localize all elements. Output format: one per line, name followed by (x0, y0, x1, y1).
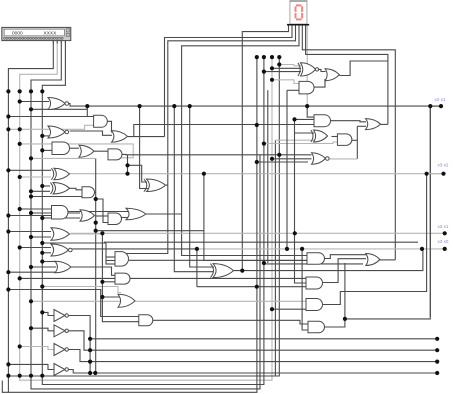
wire bottom run from column B (gray) (20, 57, 272, 380)
and gate U30 (314, 115, 331, 127)
wire U11 output to U14 input (68, 211, 128, 213)
wire U14 output to vertical x=181.6 (146, 213, 181, 215)
wire U17 output to U19 input (71, 267, 116, 275)
and gate U13 (108, 213, 122, 225)
junction dots rail y=106.1 (85, 104, 89, 108)
wire column B to U24 input (gray) (20, 347, 54, 350)
junction dot x=127.5 y=165.3 (125, 163, 129, 167)
wire gray run y=129.3 to U2 and U3 inputs (8, 125, 94, 129)
wire column A to U15 input (8, 231, 51, 233)
wire column D to U18 bundle (42, 242, 106, 244)
wire junction column x=90.1 (89, 339, 91, 373)
wire column A to U25 input (8, 364, 54, 369)
wire U38 output loop to x3x2 (323, 174, 427, 305)
wire keyboard pin3 to column x1 (31, 41, 61, 91)
wire U30 output to U34 input (331, 121, 367, 122)
wire column C to U9 input (31, 190, 50, 192)
wire U35 output to U36 input (325, 255, 367, 259)
wire keyboard pin4 to column x0 (42, 41, 65, 91)
wire V7 vertical x=294.5 U31 input to U37 input (295, 133, 315, 283)
wire x3x2 output stub (gray) (427, 173, 444, 175)
wire x95 branch run y=230.7 (96, 230, 204, 232)
wire V6 vertical x=287 (286, 90, 288, 249)
wire column C long run to U38 input (gray) (31, 300, 307, 302)
junction dot V2 y=263 (262, 261, 266, 265)
wire U28 output to 7seg pin g (339, 61, 388, 76)
wire column A to U17 input (8, 271, 56, 273)
junction dots inverter lines (88, 337, 92, 341)
wire bottom run from column C (31, 155, 260, 389)
wire column C to U23 input (31, 328, 54, 331)
wire 7seg pin a to vertical x=242.3 (242, 25, 288, 270)
wire column B to U1 input (20, 101, 49, 103)
wire U24 output line y=361.6 (65, 350, 437, 362)
7-segment display connector bar (287, 24, 309, 26)
wire U18 stub 2 (106, 256, 115, 258)
wire column C branch y=109.3 (31, 108, 87, 110)
wire V4 branch to U27 input (272, 67, 301, 69)
wire bottom dotted row run (7, 57, 279, 376)
svg-text:x2 x1: x2 x1 (435, 97, 446, 102)
and gate U5 (52, 142, 70, 155)
wire x102 vertical to U19 U20 U21 inputs (102, 233, 139, 321)
keyboard pin stubs (53, 41, 65, 44)
and gate U10 (82, 187, 95, 198)
and gate U2 (94, 115, 108, 127)
wire column D to U3 input (42, 135, 49, 137)
wire vertical x=189.7 to U26 input (190, 106, 214, 267)
wire vertical x=275.4 to U31 input (gray) (275, 139, 314, 141)
wire vertical x=174.3 to U26 input (174, 106, 214, 272)
svg-text:x3 x1: x3 x1 (438, 224, 449, 229)
and gate U35 (307, 253, 325, 265)
wire V8 vertical to U39 input (302, 249, 309, 330)
junction dot x102 y=281.8 (100, 280, 104, 284)
wire vertical x=196.9 to run y=286.7 (196, 249, 198, 287)
wire column D to U16 input (42, 252, 51, 254)
wire U18 stub 4 (106, 263, 115, 265)
inverter U22 (54, 310, 65, 322)
wire rail branch to U30 input (307, 106, 314, 117)
wire x102 branch to U19 input (102, 281, 116, 283)
and gate U21 (139, 315, 153, 326)
wire U4 output branch to U30 input (134, 125, 314, 137)
wire U22 output line y=338.8 (66, 316, 437, 339)
wire V4 branch to U33 input (272, 158, 312, 160)
svg-text:0000: 0000 (12, 30, 23, 36)
and gate U7 (108, 149, 122, 160)
wire vertical x=127.5 from U7 output wire (127, 155, 129, 174)
wire V1 branch to U33 input (257, 161, 308, 163)
xor gate U26 (213, 264, 234, 278)
wire column C to U17 input (31, 266, 56, 268)
junction dots column C (29, 107, 33, 111)
xor gate U8 (54, 168, 70, 180)
junction dot V7 y=119.4 (292, 117, 296, 121)
wire rail y=106.3 from U1 output to x2x1 pin (68, 104, 441, 107)
wire rail y=116.5 from column A to U2 (8, 116, 94, 118)
xnor U27 output bubble (315, 68, 318, 71)
wire U7 output to U33 input (122, 153, 312, 155)
xor gate U40 (147, 179, 166, 192)
wire vertical x=357.3 to U34 input (357, 125, 366, 127)
wire V2 branch to U36 input (264, 263, 363, 265)
wire column D to U5 input (42, 149, 53, 151)
wire U39 output loop to x2x1 (325, 106, 431, 327)
wire U37 output to U36 input (323, 259, 367, 283)
wire U3 output to U4 input (70, 131, 112, 135)
wire U25 output line y=373 (65, 370, 437, 374)
wire U31 output to U32 input (332, 136, 338, 138)
wire U29 output to U28 input 2 (313, 79, 325, 87)
wire U5 output to U6 input (70, 147, 80, 149)
wire U27 output to U28 input (319, 69, 326, 71)
wire column A to U11 input (8, 215, 51, 217)
wire U2 output to U4 input (107, 121, 111, 132)
or gate U17 (55, 261, 71, 273)
junction dots column B (18, 99, 22, 103)
nor gate U33 (312, 153, 326, 165)
junction dots mid verticals top (255, 55, 259, 59)
wire 7seg pin f right to x=395.3 (302, 25, 395, 260)
wire rail y=173.7 from U8 output to x3x2 pin (gray) (70, 173, 444, 175)
wire 7seg pin d to vertical x=181.6 and U35 input (182, 25, 308, 255)
svg-text:x3 x2: x3 x2 (438, 163, 449, 168)
wire column D to U12 input (42, 217, 80, 219)
and gate U29 (299, 81, 314, 94)
and gate U37 (306, 277, 323, 289)
wire column D to U22 input (42, 312, 54, 315)
wire 7seg pin c to vertical x=167.8 and U18 input (115, 25, 296, 253)
or gate U4 (112, 131, 128, 143)
wire vertical x=139.6 to U40 input (140, 106, 148, 188)
junction dots rail y=173.7 (125, 172, 129, 176)
wire column A to U8 input (8, 169, 51, 171)
junction dots mid verticals (255, 123, 259, 127)
wire U15 output to rail (70, 232, 103, 235)
or gate U28 (325, 69, 339, 81)
junction dots x95 vertical (94, 197, 98, 201)
xnor gate U27 (301, 63, 316, 76)
or gate U15 (51, 228, 70, 241)
xor gate U31 (314, 130, 328, 142)
inverter U25 (54, 364, 65, 376)
wire long run y=242.2 (104, 241, 418, 243)
wire V4 branch to U29 input (gray) (272, 80, 299, 84)
wire vertical x=95.7 column C carrier (95, 158, 97, 373)
wire vertical x=275.4 lower (274, 140, 276, 376)
wire keyboard pin1 to column x3 (8, 41, 53, 91)
wire bottom run from column D (42, 57, 264, 384)
wire bottom run from column A (7, 376, 9, 393)
or gate U36 (366, 254, 380, 266)
wire rail y=233.3 from U15 output to x3x1 pin (gray) (71, 232, 445, 234)
junction dots rail y=233.3 (100, 231, 104, 235)
wire column B run to U37 input (20, 277, 307, 279)
and gate U32 (337, 134, 352, 146)
nor gate U16 (51, 244, 69, 256)
wire 7seg pin b to vertical x=164.5 (165, 25, 293, 136)
wire vertical x=203.9 to U35 input (204, 174, 307, 261)
wire rail y=248.9 to x3x0 pin (gray part) (197, 248, 445, 250)
wire riser x=344.9 to U36 input 3 (344, 263, 346, 319)
wire U13 output to U14 input (122, 217, 129, 219)
wire column C to U12 input (31, 212, 80, 214)
junction dots bus columns top (6, 89, 10, 93)
wire V2 branch to U32 input (gray) (264, 142, 338, 144)
or gate U12 (80, 210, 95, 222)
wire U21 output to U39 input (153, 320, 309, 324)
wire run to U21 input (8, 290, 139, 317)
wire V2 branch to U27 input (264, 71, 301, 73)
junction dots rail y=248.9 (195, 247, 199, 251)
wire junction x=87.3 down (86, 106, 88, 116)
nor gate U1 (48, 98, 65, 110)
wire column B to U16 input (20, 247, 51, 249)
wire x2x1 output stub (430, 105, 441, 107)
and gate U11 (52, 206, 68, 220)
wire column C to U15 input (31, 236, 51, 238)
wire bus column C x=31 (30, 91, 32, 375)
wire run y=286.7 to U37 input (197, 286, 306, 288)
or gate U6 (79, 145, 94, 157)
wire U32 output to vertical x=357.3 (352, 139, 358, 141)
and gate U38 (306, 299, 323, 311)
wire column C to vertical x=95.7 (gray) (31, 157, 96, 159)
wire U9 output to U10 input (70, 188, 83, 190)
wire U26 output long run to x3x0 (234, 249, 423, 271)
or gate U14 (126, 208, 146, 220)
inverter U23 (54, 325, 65, 337)
junction dot riser x=344.9 (343, 317, 347, 321)
wire V5 branch to U27 input (gray) (279, 65, 301, 66)
wire V6 top to U29 input (287, 89, 299, 91)
wire x102 branch to U20 input (102, 296, 119, 298)
wire V4 branch to U38 input (272, 308, 307, 310)
wire column B to U8 input (gray) (20, 176, 51, 178)
junction dots column A (6, 114, 10, 118)
wire vertical x=267.8 to U36 input line (267, 90, 269, 263)
wire keyboard pin2 to column x2 (gray) (20, 41, 58, 91)
wire branch x=127.5 to U40 input (128, 165, 148, 182)
xor gate U9 (53, 183, 70, 195)
wire U12 output to U13 input (96, 215, 109, 217)
wire vertical x=430.3 up to x2x1 (429, 106, 431, 316)
wire bus column A x=8.4 (7, 91, 9, 375)
wire 7seg pin e straight down (gray) (306, 25, 308, 106)
wire column D to U17 input (42, 261, 56, 263)
inverter U24 (54, 344, 65, 356)
wire U34 output to vertical x=387.9 (381, 123, 388, 125)
wire U36 output to vertical x=395.3 (380, 259, 396, 261)
wire U33 output to vertical x=357.3 (gray) (328, 158, 357, 160)
wire U18 output to U35 input (129, 259, 308, 261)
wire U23 output line y=350.2 (65, 331, 437, 350)
wire U6 output to U7 input (94, 150, 109, 152)
wire column B to U5 and U7 inputs (gray) (20, 144, 134, 158)
wire bus column B x=19.7 (gray) (19, 91, 21, 375)
nor gate U3 (48, 126, 65, 138)
and gate U18 (115, 252, 129, 267)
wire column D to U9 input (42, 185, 50, 187)
svg-text:XXXX: XXXX (44, 30, 58, 36)
wire column D to U20 input (gray) (42, 287, 121, 293)
wire U4 output to vertical x=164.5 (128, 136, 165, 138)
wire U18 input bundle riser (105, 243, 107, 265)
wire U40 output to vertical x=167.8 (166, 184, 168, 186)
or gate U34 (366, 119, 381, 130)
or gate U20 (118, 294, 135, 307)
junction dot 7seg pin a tap (240, 269, 244, 273)
wire x95 branch to U13 inputs (96, 199, 109, 223)
junction dot x102 y=297 (100, 295, 104, 299)
keyboard component KB1 (2, 27, 71, 40)
wire U18 stub 3 (106, 260, 115, 262)
wire V7 upper branch to U30 input (295, 119, 315, 133)
and gate U19 (115, 273, 130, 284)
wire bottom run left hook to vertical x=256.9 (2, 57, 257, 392)
wire bus column D x=42.3 (41, 91, 43, 375)
junction dot x95 y=230.7 (94, 229, 98, 233)
7-segment display DS1 (290, 1, 307, 24)
wire U10 output to vertical x=95.7 (95, 191, 96, 193)
junction dots column D (40, 134, 44, 138)
wire rail y=248.9 from U16 output (dark part) (72, 248, 197, 250)
wire column C to U10 input (31, 196, 82, 198)
wire column B to U11 input (20, 208, 52, 210)
wire 7seg pin g right to x=387.9 (306, 25, 388, 124)
svg-text:x3 x0: x3 x0 (438, 239, 449, 244)
wire vertical x=357.3 U34 input link (356, 126, 358, 159)
and gate U39 (308, 321, 325, 333)
